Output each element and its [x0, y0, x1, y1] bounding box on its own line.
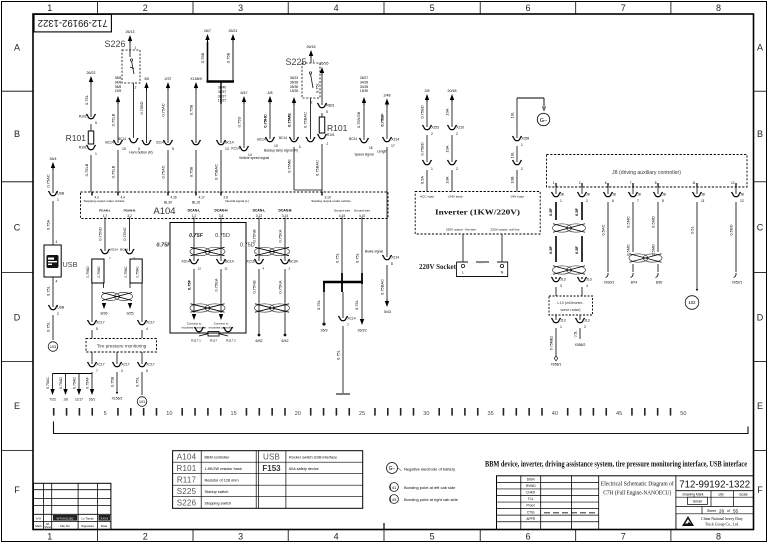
resistor R101 (left) — [66, 124, 94, 144]
svg-text:2: 2 — [431, 132, 433, 136]
svg-text:1/8: 1/8 — [63, 398, 68, 402]
svg-text:Bonding point at right cab sid: Bonding point at right cab side — [404, 497, 459, 502]
svg-text:35: 35 — [488, 411, 494, 417]
svg-text:X214: X214 — [391, 138, 399, 142]
svg-text:50: 50 — [680, 411, 686, 417]
svg-text:J8: J8 — [637, 193, 641, 197]
elbow wire into A104 pin 3.10 — [294, 189, 322, 191]
svg-text:Resistor of 128 ohm: Resistor of 128 ohm — [205, 478, 239, 482]
resistor R101 (right) — [319, 113, 347, 133]
branch to bonding 26/22 — [354, 284, 367, 333]
svg-text:PGAN-B: PGAN-B — [124, 209, 137, 213]
svg-text:XC17: XC17 — [121, 363, 130, 367]
svg-text:7: 7 — [347, 323, 349, 327]
svg-text:8: 8 — [716, 532, 721, 542]
svg-text:0.75NC: 0.75NC — [122, 227, 127, 241]
svg-text:5: 5 — [96, 327, 98, 331]
svg-text:E: E — [14, 401, 20, 411]
svg-text:8: 8 — [655, 181, 657, 185]
svg-text:0.75BAC: 0.75BAC — [303, 112, 308, 128]
connector R101 pin 1 — [79, 145, 97, 192]
svg-text:0.75F: 0.75F — [189, 233, 204, 239]
svg-text:BC14: BC14 — [105, 141, 114, 145]
svg-text:DCAN-L: DCAN-L — [188, 209, 201, 213]
rotated drawing number box 712-99192-1322 — [34, 14, 111, 32]
svg-text:0.75NC: 0.75NC — [124, 266, 128, 278]
svg-text:2: 2 — [57, 312, 59, 316]
svg-text:13: 13 — [225, 147, 229, 151]
svg-text:DCAN-H: DCAN-H — [214, 209, 228, 213]
svg-text:X052/1: X052/1 — [732, 281, 743, 285]
svg-text:11/17: 11/17 — [75, 398, 83, 402]
svg-text:BBM controller: BBM controller — [205, 455, 231, 459]
ground comb wires T/22 1/8 11/17 26/1 — [46, 372, 95, 402]
svg-text:TCL: TCL — [528, 497, 534, 501]
svg-text:Scale: Scale — [739, 493, 748, 497]
svg-text:5: 5 — [172, 147, 174, 151]
wire 20/48 +24V input — [445, 89, 457, 127]
svg-text:38/40: 38/40 — [218, 86, 226, 90]
svg-text:DCAN-L: DCAN-L — [253, 209, 266, 213]
svg-text:0.75ND: 0.75ND — [97, 266, 101, 278]
svg-text:0.5AC: 0.5AC — [601, 224, 606, 235]
legend bonding point left cab side — [390, 483, 457, 492]
svg-text:9/25: 9/25 — [127, 312, 134, 316]
bonding point circle 103 — [48, 342, 58, 352]
svg-text:R101: R101 — [79, 146, 87, 150]
connector BC14 pin 8 — [118, 137, 140, 151]
connector J13 pin 2 below radar — [574, 315, 590, 347]
svg-text:17: 17 — [391, 144, 395, 148]
wire 26/22 to resistor R101 — [84, 71, 96, 117]
svg-text:220V Socket: 220V Socket — [419, 263, 457, 271]
wire from USB box to bonding 103 — [46, 277, 58, 307]
wire 26/26 to resistor R101 right — [315, 62, 329, 106]
svg-text:712-99192-1322: 712-99192-1322 — [679, 479, 750, 491]
crossover of pair wires — [102, 283, 133, 306]
svg-text:DIGN: DIGN — [527, 478, 536, 482]
shield box right pair — [124, 259, 142, 283]
connector BC34 pin 2 — [281, 259, 298, 271]
svg-text:15: 15 — [231, 411, 237, 417]
svg-text:R101: R101 — [66, 133, 87, 143]
scale ruler — [53, 408, 687, 417]
svg-text:0.75F: 0.75F — [187, 279, 192, 290]
svg-text:0.75L: 0.75L — [135, 376, 140, 387]
svg-text:A104: A104 — [177, 453, 197, 462]
svg-text:36/37: 36/37 — [218, 90, 226, 94]
svg-text:X030/1: X030/1 — [604, 281, 615, 285]
svg-text:10: 10 — [166, 411, 172, 417]
svg-text:1: 1 — [560, 199, 562, 203]
svg-text:X058/2: X058/2 — [575, 343, 586, 347]
wire to bonding point 101 — [135, 372, 147, 406]
svg-text:Ls Tianjin: Ls Tianjin — [81, 517, 94, 521]
svg-text:4: 4 — [334, 532, 339, 542]
svg-text:101: 101 — [139, 400, 145, 404]
svg-text:X058/1: X058/1 — [551, 363, 562, 367]
left zone band with row letters — [2, 42, 33, 495]
svg-text:X214: X214 — [391, 256, 399, 260]
svg-text:PGAN-L: PGAN-L — [99, 209, 111, 213]
svg-text:DCAN-B: DCAN-B — [278, 209, 292, 213]
bottom zone band with column numbers — [47, 523, 721, 542]
svg-text:S225: S225 — [285, 57, 306, 67]
svg-text:BC14: BC14 — [225, 260, 234, 264]
svg-text:2: 2 — [327, 142, 329, 146]
wire from bar to connector BC14 13 and A104 pin 2.8 — [218, 82, 226, 144]
svg-text:3.12: 3.12 — [256, 214, 262, 218]
svg-text:Startup switch: Startup switch — [205, 490, 229, 494]
svg-text:XC17: XC17 — [96, 321, 105, 325]
title block sheet number row — [676, 507, 754, 514]
branch to bonding 26/9 — [316, 292, 328, 333]
svg-text:4/8: 4/8 — [268, 91, 273, 95]
svg-text:XD14: XD14 — [181, 260, 190, 264]
svg-text:1: 1 — [560, 325, 562, 329]
svg-text:102: 102 — [689, 300, 697, 305]
svg-text:0.75BD: 0.75BD — [420, 142, 425, 155]
svg-text:0.75NGB: 0.75NGB — [356, 111, 361, 128]
A104 ground wires 4.15 and 4.10 — [335, 219, 363, 293]
svg-text:0.75BAC: 0.75BAC — [380, 279, 385, 295]
svg-text:BC14: BC14 — [279, 136, 287, 140]
svg-text:USB: USB — [57, 306, 65, 310]
svg-text:0.75LB: 0.75LB — [111, 113, 116, 126]
J8 connectors below pins — [552, 187, 744, 203]
svg-text:BC14: BC14 — [225, 141, 234, 145]
svg-text:4: 4 — [56, 240, 58, 244]
svg-text:0.75D: 0.75D — [215, 233, 230, 239]
bonding point circle 102 — [685, 296, 699, 310]
svg-text:Negative electrode of battery: Negative electrode of battery — [404, 466, 455, 471]
svg-text:Horn button (R): Horn button (R) — [129, 151, 152, 155]
svg-text:0.75B: 0.75B — [189, 166, 194, 177]
svg-text:3.8: 3.8 — [219, 214, 224, 218]
svg-text:10A: 10A — [445, 176, 450, 183]
svg-text:0.75LB: 0.75LB — [111, 165, 116, 178]
connector J13 pin 4 — [578, 277, 592, 296]
svg-text:Neutral signal (L): Neutral signal (L) — [225, 199, 249, 203]
svg-text:0.75L: 0.75L — [335, 252, 340, 263]
svg-text:L: L — [462, 271, 464, 275]
svg-text:2: 2 — [143, 3, 148, 13]
svg-text:USB: USB — [57, 192, 65, 196]
connector BC14 pin 9 — [189, 140, 201, 192]
connector XD14 pin 12 — [181, 259, 201, 271]
svg-text:Qty: Qty — [718, 493, 724, 497]
svg-text:0.75LB: 0.75LB — [84, 163, 89, 176]
svg-text:26/13: 26/13 — [126, 30, 135, 34]
svg-text:8/74: 8/74 — [631, 281, 638, 285]
svg-text:4: 4 — [146, 327, 148, 331]
svg-text:26/22: 26/22 — [358, 329, 367, 333]
svg-text:B: B — [14, 129, 20, 139]
J8 wire pin 11 to bonding 102 — [690, 202, 699, 291]
legend negative electrode of battery — [387, 463, 456, 474]
svg-text:Inverter (1KW/220V): Inverter (1KW/220V) — [435, 209, 521, 217]
svg-text:1: 1 — [521, 143, 523, 147]
wire to battery negative G- — [510, 98, 546, 138]
J8 wire pin 12 to X052/1 — [729, 202, 743, 285]
svg-text:0.5BD: 0.5BD — [729, 224, 734, 235]
connector BC24 pin 18 — [349, 137, 374, 157]
svg-text:2: 2 — [121, 369, 123, 373]
svg-text:0.75L: 0.75L — [316, 299, 321, 310]
svg-text:Backup lamp signal (R): Backup lamp signal (R) — [264, 149, 298, 153]
svg-text:2: 2 — [143, 532, 148, 542]
svg-text:36/23: 36/23 — [290, 76, 298, 80]
svg-text:0.5F: 0.5F — [548, 245, 553, 254]
wire 3/8 — [139, 77, 149, 143]
svg-text:0.5F: 0.5F — [574, 207, 579, 216]
svg-text:CHKD: CHKD — [526, 491, 536, 495]
svg-text:1: 1 — [95, 152, 97, 156]
svg-text:26: 26 — [719, 508, 725, 513]
svg-text:S226: S226 — [177, 499, 197, 508]
svg-text:8/26: 8/26 — [101, 312, 108, 316]
svg-text:30/28: 30/28 — [360, 85, 368, 89]
svg-text:15/27: 15/27 — [218, 99, 226, 103]
svg-text:G−: G− — [389, 466, 396, 472]
svg-text:55: 55 — [733, 508, 739, 513]
svg-text:5/43: 5/43 — [384, 310, 391, 314]
title block drawing number 712-99192-1322 — [676, 479, 754, 491]
svg-text:Sheet: Sheet — [707, 509, 716, 513]
right zone band with row letters — [754, 42, 767, 495]
svg-text:J8: J8 — [586, 193, 590, 197]
svg-text:KC14: KC14 — [231, 147, 240, 151]
svg-text:45: 45 — [616, 411, 622, 417]
svg-text:1: 1 — [47, 3, 52, 13]
connector BC14 pin 10 — [105, 140, 126, 192]
connector X214 pin 17 — [377, 137, 399, 257]
svg-text:X156/2: X156/2 — [112, 397, 123, 401]
svg-text:0.5MC: 0.5MC — [626, 244, 631, 256]
svg-text:4.16: 4.16 — [171, 195, 177, 199]
svg-text:Vehicle speed signal: Vehicle speed signal — [239, 156, 269, 160]
svg-text:XC17: XC17 — [96, 363, 105, 367]
svg-text:3.14: 3.14 — [282, 214, 288, 218]
shield box around DCAN pair with R117 — [170, 223, 246, 334]
svg-text:R102: R102 — [79, 115, 87, 119]
connector BC14 pin 10b — [257, 137, 298, 153]
thick ground bus bar — [323, 282, 363, 292]
connector XC14 pin 7 on ground wire — [336, 292, 356, 393]
J8 pair wires 1 and 2 thick — [548, 202, 586, 279]
svg-text:38/8: 38/8 — [115, 76, 122, 80]
svg-text:BL30: BL30 — [164, 201, 172, 205]
svg-text:712-99192-1322: 712-99192-1322 — [38, 17, 108, 29]
svg-text:1: 1 — [47, 532, 52, 542]
bottom left revision table — [34, 483, 111, 529]
svg-text:+24V input: +24V input — [448, 195, 463, 199]
ground symbol — [336, 393, 350, 395]
svg-text:0.5F: 0.5F — [574, 245, 579, 254]
svg-text:5: 5 — [326, 110, 328, 114]
tire pressure monitoring box — [86, 339, 157, 353]
twisted pair wires from A104 PGAN pins — [98, 219, 130, 252]
svg-text:6: 6 — [299, 145, 301, 149]
svg-text:2: 2 — [456, 167, 458, 171]
svg-text:7: 7 — [637, 199, 639, 203]
svg-text:0.75BD: 0.75BD — [139, 101, 144, 114]
svg-text:Electrical Schematic Diagram o: Electrical Schematic Diagram of — [601, 481, 675, 488]
svg-text:2: 2 — [521, 167, 523, 171]
svg-text:A: A — [14, 42, 20, 52]
svg-text:20/48: 20/48 — [448, 89, 457, 93]
svg-text:26/15: 26/15 — [307, 45, 316, 49]
svg-text:26/7: 26/7 — [204, 29, 211, 33]
svg-text:0.75NB: 0.75NB — [252, 280, 257, 294]
svg-text:15/28: 15/28 — [290, 89, 298, 93]
thick junction bar — [207, 80, 235, 83]
svg-text:D: D — [14, 312, 21, 322]
svg-text:R117: R117 — [177, 476, 197, 485]
svg-text:20: 20 — [295, 411, 301, 417]
svg-text:X210: X210 — [456, 126, 464, 130]
svg-text:BC34: BC34 — [289, 260, 298, 264]
DCAN-L/H pair wires — [156, 219, 254, 262]
svg-text:2: 2 — [135, 86, 137, 90]
DCAN second pair wires 3.12/3.14 — [252, 219, 290, 262]
wires from inverter to 220V socket — [463, 234, 502, 262]
svg-text:0.75L: 0.75L — [84, 94, 89, 105]
wire 2/8 ACC input with F153 — [420, 89, 430, 127]
startup switch S225 — [285, 57, 320, 105]
svg-text:0.75AD: 0.75AD — [73, 377, 77, 389]
svg-text:8: 8 — [662, 199, 664, 203]
svg-text:40: 40 — [552, 411, 558, 417]
svg-text:8: 8 — [391, 262, 393, 266]
svg-text:4.17: 4.17 — [199, 195, 205, 199]
inverter 1KW/220V box — [415, 192, 540, 235]
svg-text:2: 2 — [586, 199, 588, 203]
svg-text:China National heavy Duty: China National heavy Duty — [701, 517, 743, 521]
wire from S225 pin 2 — [303, 98, 311, 139]
svg-text:4: 4 — [586, 284, 588, 288]
connector BC74 pin 8 — [306, 137, 315, 142]
wires into tire pressure connector — [92, 283, 142, 322]
svg-text:10: 10 — [122, 147, 126, 151]
svg-text:0.75L: 0.75L — [354, 299, 359, 310]
svg-text:0.75ME: 0.75ME — [287, 113, 292, 127]
svg-text:0.5L: 0.5L — [574, 331, 578, 338]
svg-text:0.75D: 0.75D — [237, 117, 242, 128]
wire 26/7 thick feeder — [200, 29, 211, 82]
resistor R117 of 128 ohm — [191, 327, 236, 343]
svg-text:J8: J8 — [662, 193, 666, 197]
svg-text:5: 5 — [95, 121, 97, 125]
svg-text:0.75A: 0.75A — [46, 219, 51, 230]
fuse pin 2 — [445, 160, 459, 192]
svg-text:0.75F: 0.75F — [156, 243, 171, 249]
svg-text:R101: R101 — [177, 464, 197, 473]
svg-text:1.7: 1.7 — [103, 214, 108, 218]
connector X258 pin 1 — [510, 136, 530, 162]
connector BC14 pin 8b — [142, 140, 151, 145]
svg-text:10B: 10B — [510, 176, 515, 183]
svg-text:7: 7 — [96, 369, 98, 373]
svg-text:0.75KA: 0.75KA — [278, 229, 283, 242]
connector R102 pin 5 — [79, 114, 97, 125]
svg-text:R101: R101 — [327, 133, 335, 137]
svg-text:3: 3 — [238, 3, 243, 13]
svg-text:4: 4 — [334, 3, 339, 13]
svg-text:J13: J13 — [560, 278, 566, 282]
svg-text:Sheet: Sheet — [44, 525, 51, 529]
connector RB21 pin 5 — [318, 103, 335, 114]
arrow 8/26 — [101, 303, 108, 316]
svg-text:26/21: 26/21 — [229, 29, 238, 33]
svg-text:Signature: Signature — [81, 524, 94, 528]
svg-text:X214: X214 — [156, 141, 164, 145]
svg-text:4: 4 — [56, 280, 58, 284]
svg-text:F: F — [757, 485, 763, 495]
svg-text:wave radar): wave radar) — [560, 308, 581, 312]
wire to X156/2 — [110, 372, 123, 401]
svg-text:11: 11 — [701, 199, 705, 203]
J8 pair wires 7 and 8 — [626, 202, 663, 285]
svg-text:RVWD: RVWD — [526, 484, 536, 488]
svg-text:WTXK011B2: WTXK011B2 — [56, 517, 73, 521]
svg-text:0.75NB: 0.75NB — [252, 229, 257, 243]
title block drawing title — [601, 476, 676, 530]
svg-text:. .: . . — [479, 260, 482, 265]
svg-text:0.75AC: 0.75AC — [46, 377, 50, 389]
svg-text:1.8K/2W resistor bank: 1.8K/2W resistor bank — [205, 467, 242, 471]
svg-text:103: 103 — [50, 345, 56, 349]
svg-text:XC17: XC17 — [146, 363, 155, 367]
svg-text:C: C — [757, 222, 764, 232]
svg-text:10A: 10A — [445, 145, 450, 152]
svg-text:0.75L: 0.75L — [46, 285, 51, 296]
svg-text:7: 7 — [630, 181, 632, 185]
svg-text:Speed signal: Speed signal — [354, 153, 373, 157]
wire X158/9 to A104 BL15 — [189, 77, 202, 143]
svg-text:7: 7 — [109, 257, 111, 261]
svg-text:26/27: 26/27 — [360, 76, 368, 80]
wire 2/48 length signal — [380, 94, 391, 140]
svg-text:Ground wire: Ground wire — [354, 209, 371, 213]
svg-text:6: 6 — [605, 181, 607, 185]
svg-text:S225: S225 — [177, 487, 197, 496]
svg-text:ACC input: ACC input — [420, 195, 434, 199]
title block revision table — [497, 476, 754, 530]
svg-text:R117 2: R117 2 — [226, 339, 236, 343]
svg-text:6/47: 6/47 — [241, 91, 248, 95]
wire 26/21 feeder — [226, 29, 238, 82]
svg-text:0.75NC: 0.75NC — [135, 266, 139, 278]
svg-text:B: B — [757, 129, 763, 139]
svg-text:6/52: 6/52 — [256, 339, 263, 343]
connector USB pin 2 — [46, 305, 65, 340]
svg-text:11: 11 — [692, 181, 696, 185]
top zone band with column numbers — [47, 2, 721, 14]
svg-text:.: . — [492, 260, 493, 265]
svg-text:C: C — [14, 222, 21, 232]
svg-text:Stopping switch: Stopping switch — [205, 501, 232, 505]
svg-text:CTIG: CTIG — [527, 510, 535, 514]
A104 top pin labels — [84, 192, 351, 205]
connector XC17 pin 4 — [138, 320, 155, 338]
svg-text:2: 2 — [579, 181, 581, 185]
svg-text:J8 (driving auxiliary controll: J8 (driving auxiliary controller) — [612, 170, 681, 176]
svg-text:220V output: null line: 220V output: null line — [491, 228, 520, 232]
connector XC17 pin 7 below tire box — [88, 352, 105, 373]
svg-text:0.75BAC: 0.75BAC — [214, 164, 219, 180]
svg-text:0.5F: 0.5F — [548, 207, 553, 216]
